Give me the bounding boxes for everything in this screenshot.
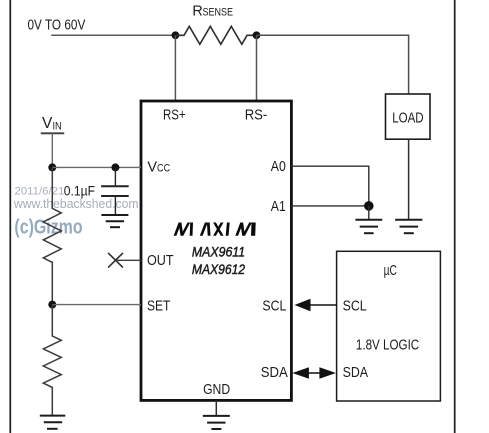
terminal VIN bar xyxy=(41,132,64,134)
Maxim logo xyxy=(174,223,256,236)
svg-text:µC: µC xyxy=(384,263,397,279)
pin label SET xyxy=(147,299,170,315)
pin label A1 xyxy=(271,199,286,215)
label SCL (uC) xyxy=(343,299,367,315)
label uC xyxy=(384,263,397,279)
pin label A0 xyxy=(271,159,286,175)
svg-text:OUT: OUT xyxy=(147,253,174,269)
pin label RS- xyxy=(245,108,268,124)
no-connect X on OUT xyxy=(108,253,123,268)
IC MAX9611/MAX9612 box xyxy=(141,101,291,400)
svg-text:RS+: RS+ xyxy=(163,108,186,124)
pin label GND xyxy=(203,382,230,398)
resistor RSENSE xyxy=(175,26,256,44)
node SET junction xyxy=(48,301,56,309)
ground (load) xyxy=(395,220,422,233)
svg-text:SCL: SCL xyxy=(343,299,367,315)
arrow SDA xyxy=(292,367,336,379)
svg-text:A1: A1 xyxy=(271,199,286,215)
pin label OUT xyxy=(147,253,174,269)
load box xyxy=(386,94,431,139)
svg-text:1.8V LOGIC: 1.8V LOGIC xyxy=(356,337,419,353)
wire A0 xyxy=(291,166,368,206)
capacitor C1 0.1uF xyxy=(101,167,129,215)
arrow SCL xyxy=(295,299,337,311)
wire RS- to LOAD xyxy=(257,35,409,94)
watermark www.thebackshed.com xyxy=(13,197,139,211)
svg-text:V: V xyxy=(147,160,157,176)
wire OUT xyxy=(116,259,142,261)
label MAX9611 xyxy=(192,245,245,260)
watermark date 2011/6/2 xyxy=(15,185,65,197)
svg-text:IN: IN xyxy=(53,121,62,133)
node A0/A1 junction xyxy=(364,201,374,211)
svg-text:A0: A0 xyxy=(271,159,286,175)
wire RS- pin xyxy=(256,35,258,101)
node decoupling junction xyxy=(111,163,119,171)
watermark (c)Gizmo xyxy=(14,217,82,239)
svg-text:SDA: SDA xyxy=(261,365,288,381)
svg-text:R: R xyxy=(192,4,202,20)
page rule left xyxy=(9,0,11,433)
svg-text:MAX9612: MAX9612 xyxy=(192,262,246,277)
ground (divider) xyxy=(40,416,66,429)
svg-text:GND: GND xyxy=(203,382,230,398)
ground (A0/A1) xyxy=(355,220,382,233)
resistor R2 xyxy=(43,305,61,416)
label 0.1uF xyxy=(64,182,95,198)
svg-text:SDA: SDA xyxy=(343,365,369,381)
page rule right xyxy=(454,0,456,433)
svg-text:CC: CC xyxy=(157,163,170,175)
svg-text:www.thebackshed.com: www.thebackshed.com xyxy=(13,197,139,211)
svg-text:0.1µF: 0.1µF xyxy=(64,182,95,198)
label 0V TO 60V xyxy=(28,18,86,34)
svg-text:RS-: RS- xyxy=(245,108,268,124)
svg-text:LOAD: LOAD xyxy=(392,111,423,127)
label SDA (uC) xyxy=(343,365,369,381)
svg-text:2011/6/21: 2011/6/21 xyxy=(15,185,65,197)
wire RS+ pin xyxy=(174,35,176,101)
wire SET xyxy=(52,304,141,306)
pin label SCL xyxy=(262,299,286,315)
svg-text:MAX9611: MAX9611 xyxy=(192,245,245,260)
ground (decoupling) xyxy=(101,215,128,227)
label RSENSE xyxy=(192,4,233,20)
wire A1 junction to ground xyxy=(368,206,370,220)
svg-text:SCL: SCL xyxy=(262,299,286,315)
pin label SDA xyxy=(261,365,288,381)
microcontroller uC box xyxy=(337,251,441,401)
label LOAD xyxy=(392,111,423,127)
label VIN xyxy=(42,115,62,133)
pin label VCC xyxy=(147,160,170,176)
pin label RS+ xyxy=(163,108,186,124)
svg-text:SENSE: SENSE xyxy=(203,7,234,19)
svg-text:V: V xyxy=(42,115,53,132)
svg-text:SET: SET xyxy=(147,299,170,315)
wire A1 xyxy=(291,205,368,207)
wire LOAD to ground xyxy=(408,139,410,219)
label 1.8V LOGIC xyxy=(356,337,419,353)
node VIN junction xyxy=(48,163,56,171)
wire GND pin xyxy=(215,400,217,416)
wire VCC xyxy=(52,166,141,168)
wire VIN xyxy=(51,133,53,167)
node RS- junction xyxy=(253,31,261,39)
label MAX9612 xyxy=(192,262,246,277)
node RS+ junction xyxy=(172,31,180,39)
svg-text:0V TO 60V: 0V TO 60V xyxy=(28,18,86,34)
wire supply input xyxy=(51,34,175,36)
ground (IC GND) xyxy=(203,416,230,429)
resistor R1 xyxy=(43,167,61,304)
